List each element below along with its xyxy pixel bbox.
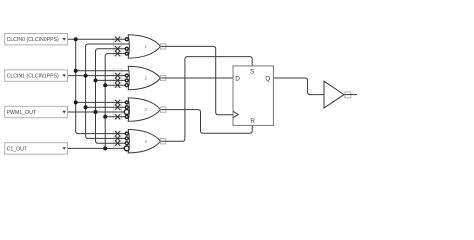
svg-text:CLCIN1 (CLCIN1PPS): CLCIN1 (CLCIN1PPS) <box>7 74 59 80</box>
svg-text:R: R <box>250 118 255 125</box>
svg-text:Q: Q <box>265 75 270 82</box>
svg-text:PWM1_OUT: PWM1_OUT <box>7 110 37 116</box>
svg-text:S: S <box>250 69 255 76</box>
svg-text:CLCIN0 (CLCIN0PPS): CLCIN0 (CLCIN0PPS) <box>7 37 59 43</box>
svg-text:D: D <box>235 75 240 82</box>
svg-text:C1_OUT: C1_OUT <box>7 146 28 152</box>
